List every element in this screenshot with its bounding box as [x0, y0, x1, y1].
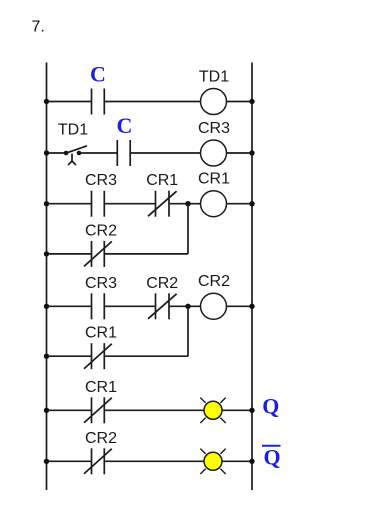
- rung 3 wire left: [47, 203, 92, 205]
- rung 2 wire right: [227, 152, 253, 154]
- node rung6-right: [249, 459, 254, 464]
- node rung4-left: [44, 304, 49, 309]
- svg-text:CR1: CR1: [85, 325, 117, 342]
- node rung3-right: [249, 201, 254, 206]
- rung 2 wire left: [47, 152, 67, 154]
- svg-text:CR2: CR2: [146, 275, 178, 292]
- rung 5 wire left: [47, 409, 92, 411]
- right rail: [251, 63, 253, 491]
- lamp Qbar: [200, 449, 225, 474]
- coil TD1: [201, 89, 227, 115]
- svg-text:CR3: CR3: [85, 275, 117, 292]
- contact C (NO): [117, 140, 130, 166]
- rung 6 wire right: [222, 460, 252, 462]
- contact CR2 (NC): [148, 293, 177, 319]
- svg-text:CR1: CR1: [85, 379, 117, 396]
- node rung1-right: [249, 99, 254, 104]
- svg-text:TD1: TD1: [199, 68, 229, 85]
- rung 3 wire mid1: [104, 203, 155, 205]
- rung 2 wire mid2: [130, 152, 200, 154]
- svg-text:CR2: CR2: [85, 430, 117, 447]
- branch 3 wire left: [47, 253, 92, 255]
- svg-text:CR3: CR3: [85, 172, 117, 189]
- coil CR3: [201, 140, 227, 166]
- timed contact TD1: [64, 146, 87, 165]
- contact CR1 (NC): [84, 343, 112, 369]
- rung 1 wire left: [47, 101, 92, 103]
- coil CR1: [201, 191, 227, 217]
- svg-text:CR2: CR2: [85, 222, 117, 239]
- node rung2-left: [44, 150, 49, 155]
- branch 3 riser wire: [187, 204, 189, 254]
- rung 6 wire mid: [104, 460, 204, 462]
- branch 4 wire right: [104, 355, 188, 357]
- contact CR2 (NC): [84, 448, 112, 474]
- rung 4 wire mid2: [169, 305, 201, 307]
- rung 4 wire mid1: [104, 305, 155, 307]
- branch 3 wire right: [104, 253, 188, 255]
- contact CR3 (NO): [92, 191, 105, 217]
- svg-text:C: C: [90, 62, 106, 87]
- node branch3-left: [44, 251, 49, 256]
- rung 1 wire middle: [104, 101, 200, 103]
- svg-text:Q: Q: [263, 445, 280, 470]
- node rung1-left: [44, 99, 49, 104]
- rung 1 wire right: [227, 101, 253, 103]
- svg-text:CR2: CR2: [198, 273, 230, 290]
- rung 4 wire right: [227, 305, 253, 307]
- rung 4 wire left: [47, 305, 92, 307]
- contact CR3 (NO): [92, 293, 105, 319]
- branch 4 wire left: [47, 355, 92, 357]
- node rung5-left: [44, 408, 49, 413]
- branch 4 riser wire: [187, 306, 189, 356]
- node rung6-left: [44, 459, 49, 464]
- svg-text:TD1: TD1: [58, 122, 88, 139]
- rung 5 wire right: [222, 409, 252, 411]
- rung 5 wire mid: [104, 409, 204, 411]
- rung 3 wire mid2: [169, 203, 201, 205]
- svg-text:7.: 7.: [32, 19, 45, 36]
- contact CR2 (NC): [84, 241, 112, 267]
- rung 2 wire mid1: [79, 152, 117, 154]
- rung 6 wire left: [47, 460, 92, 462]
- svg-text:Q: Q: [262, 394, 279, 419]
- node rung3-junction: [185, 201, 190, 206]
- contact CR1 (NC): [148, 191, 177, 217]
- contact CR1 (NC): [84, 397, 112, 423]
- svg-text:CR3: CR3: [198, 120, 230, 137]
- svg-text:CR1: CR1: [198, 171, 230, 188]
- node rung4-junction: [185, 304, 190, 309]
- coil CR2: [201, 293, 227, 319]
- node rung3-left: [44, 201, 49, 206]
- left rail: [46, 63, 48, 491]
- contact C (NO): [92, 89, 105, 115]
- node rung2-right: [249, 150, 254, 155]
- node rung5-right: [249, 408, 254, 413]
- lamp Q: [200, 398, 225, 423]
- Qbar overline: [262, 445, 281, 447]
- node branch4-left: [44, 354, 49, 359]
- svg-text:C: C: [117, 113, 133, 138]
- svg-text:CR1: CR1: [146, 172, 178, 189]
- rung 3 wire right: [227, 203, 253, 205]
- node rung4-right: [249, 304, 254, 309]
